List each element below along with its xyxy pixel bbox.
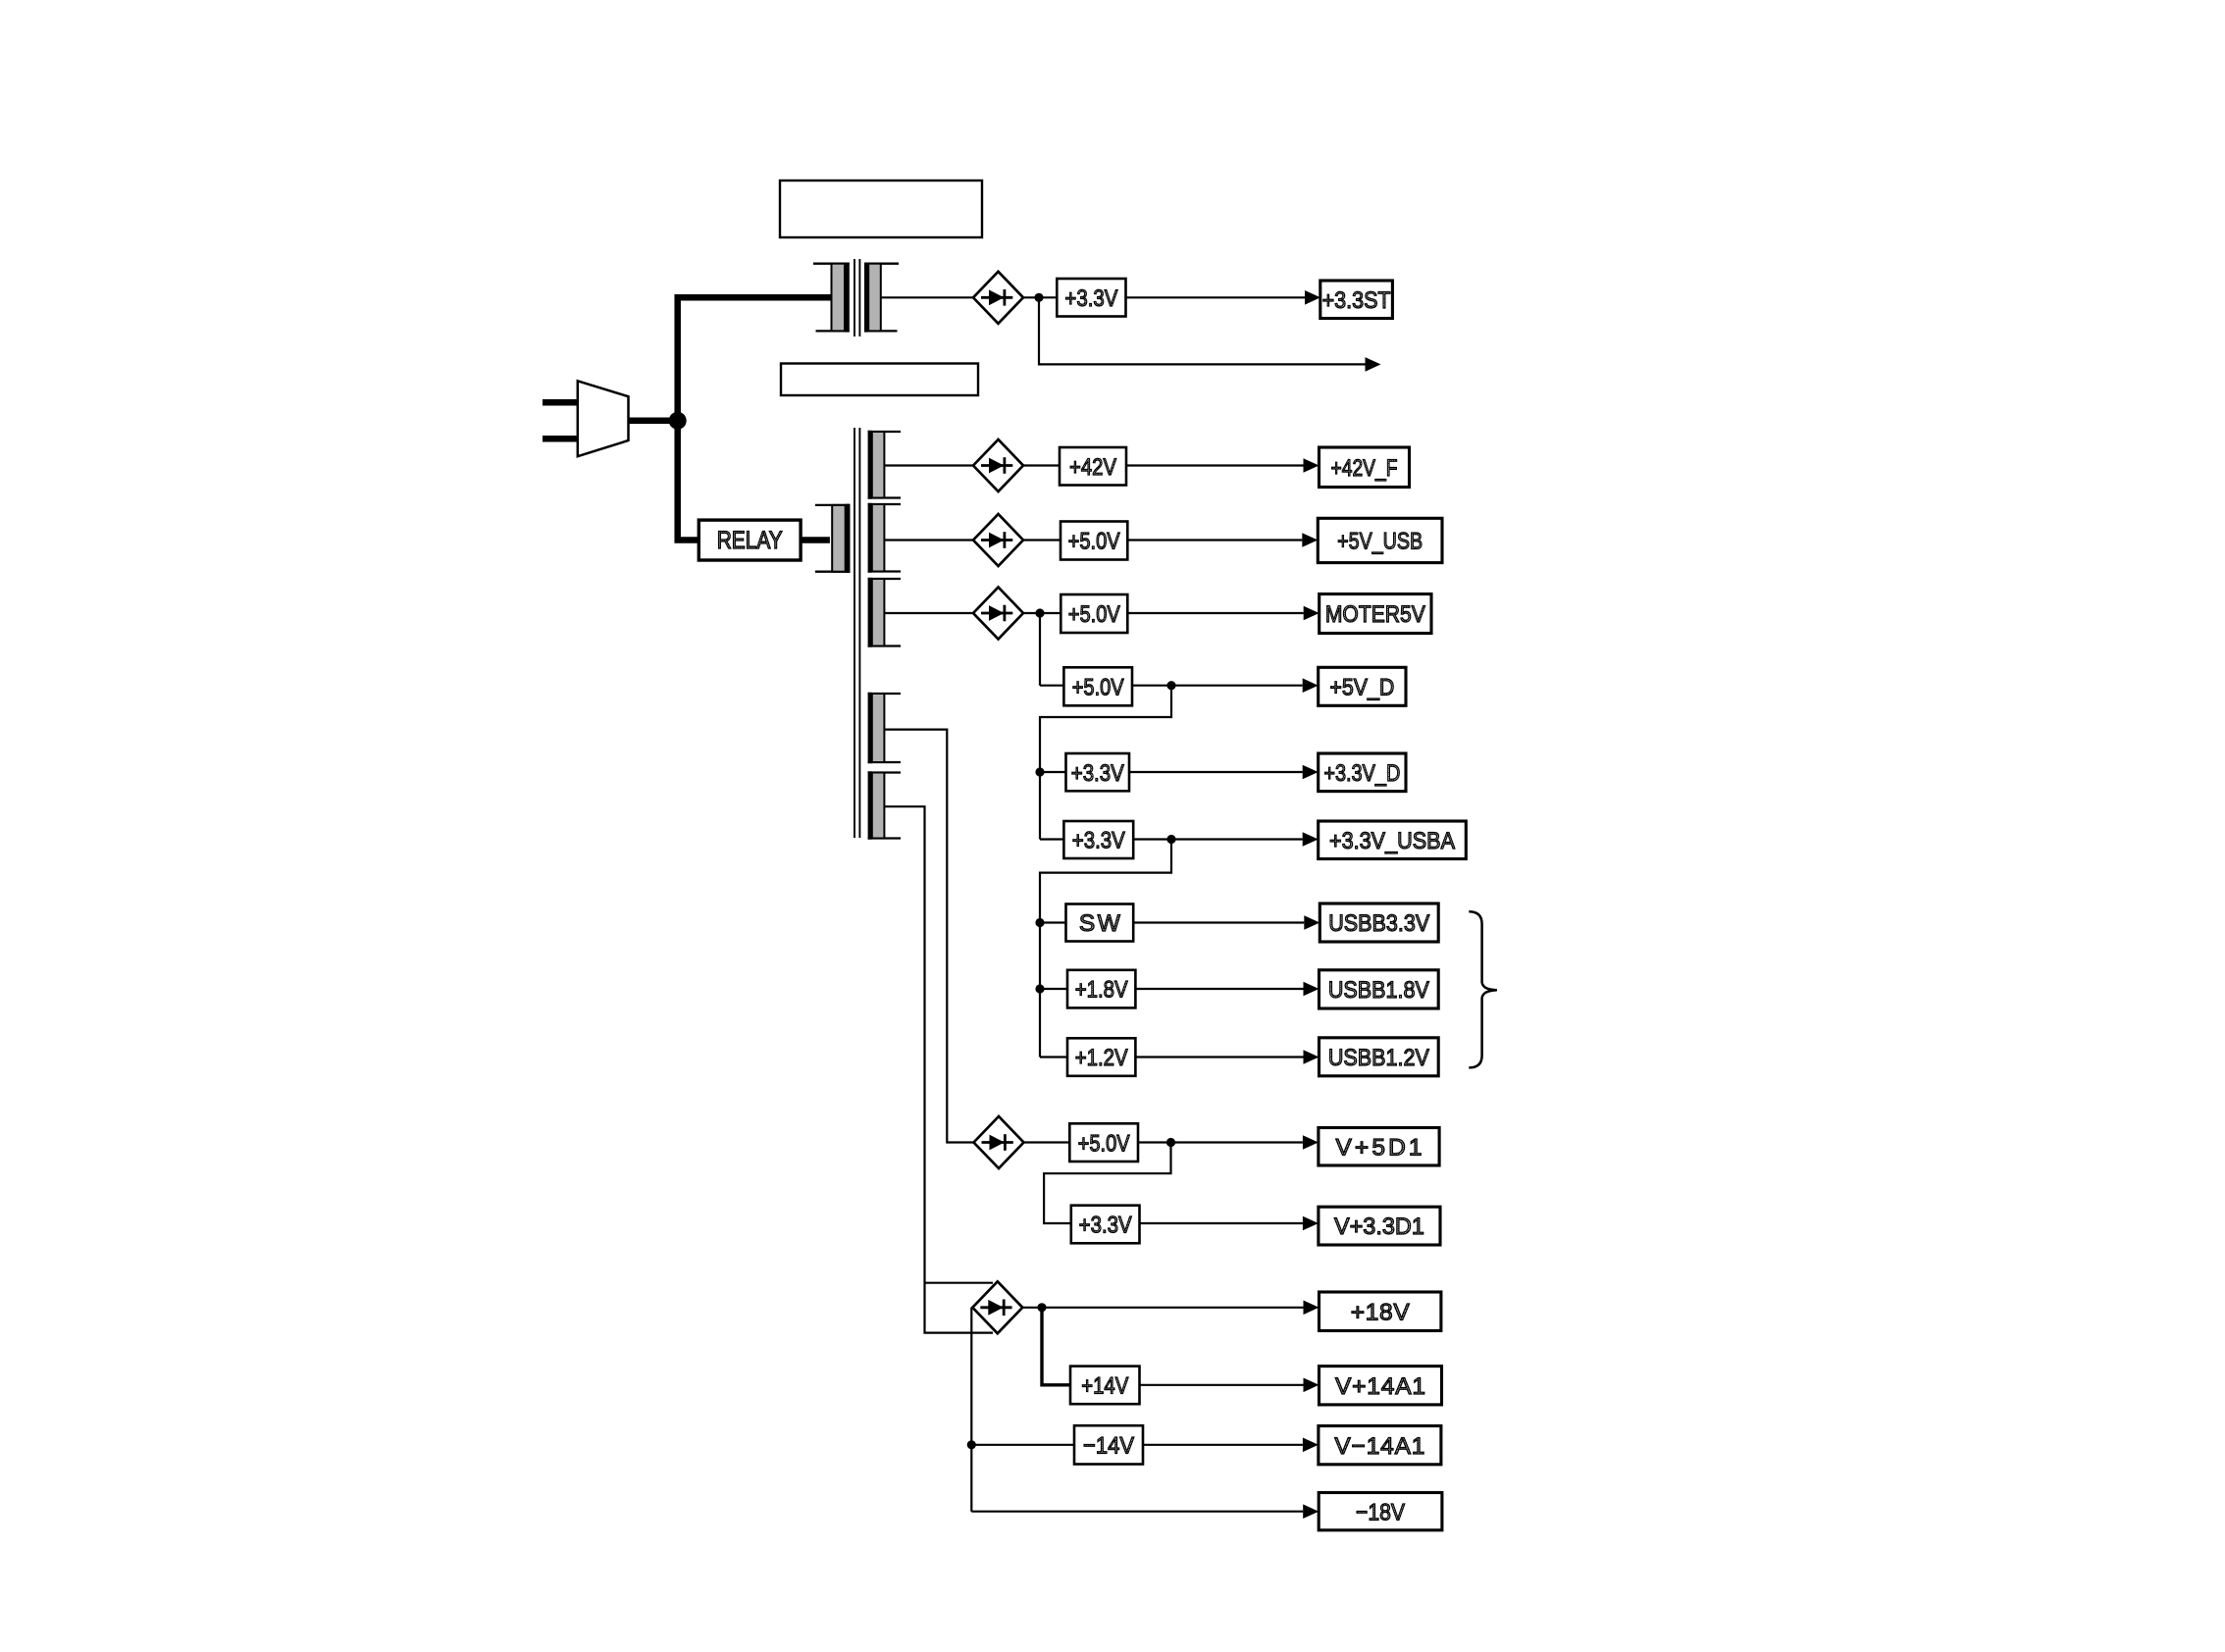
svg-text:−18V: −18V [1356, 1499, 1406, 1525]
output box USBB1.8V [1319, 970, 1439, 1008]
output box V+3.3D1 [1319, 1207, 1440, 1245]
node: AC junction [669, 412, 687, 430]
node: +18V junction [1037, 1303, 1046, 1312]
regulator box +5.0V (USB) [1061, 522, 1127, 560]
wire: S3 tap to rectifier [884, 612, 973, 614]
wire: bus to +3.3V (logic) [1040, 771, 1066, 773]
bridge rectifier (printer digital) [974, 1116, 1024, 1168]
regulator box +3.3V (standby) [1057, 279, 1125, 317]
empty label box (top) [780, 181, 982, 237]
wire: +5.0V to MOTER5V arrow [1127, 612, 1303, 614]
bridge rectifier (analog +/-18V) [972, 1281, 1022, 1333]
wire: bus to SW box [1040, 921, 1066, 923]
wire: bus to +1.2V box [1040, 1056, 1067, 1058]
wire: S2 tap to rectifier [884, 539, 973, 541]
AC plug prong (upper) [543, 399, 578, 406]
wire: rectifier to +18V junction [1022, 1307, 1042, 1309]
svg-text:MOTER5V: MOTER5V [1325, 601, 1426, 628]
output box -18V [1319, 1493, 1442, 1530]
wire: +5.0V to +5V_D arrow [1132, 685, 1303, 687]
output box +3.3ST [1320, 281, 1393, 319]
wire: +5.0V to +5V_USB arrow [1127, 539, 1302, 541]
wire: plug to AC junction (thick) [629, 418, 678, 425]
wire: rectifier to +5.0V box (motor) [1023, 612, 1061, 614]
wire: bus down from motor rectifier junction [1039, 613, 1041, 686]
wire: +3.3V to +3.3V_D arrow [1129, 771, 1303, 773]
node: +3.3V output junction [1034, 293, 1043, 302]
wire: SW to USBB3.3V arrow [1133, 921, 1304, 923]
wire: bus down to USB-A branch [1039, 772, 1041, 840]
svg-text:+3.3V: +3.3V [1079, 1213, 1133, 1239]
svg-text:V+3.3D1: V+3.3D1 [1334, 1213, 1424, 1240]
svg-text:+5.0V: +5.0V [1078, 1130, 1131, 1157]
wire: rectifier to +5.0V box (printer) [1024, 1141, 1070, 1143]
wire: bus zigzag from +3.3V_USBA junction down [1040, 840, 1171, 923]
regulator box +3.3V (logic) [1066, 753, 1130, 791]
switch box SW [1066, 904, 1134, 942]
bridge rectifier (+42V) [973, 439, 1023, 491]
output box +18V [1319, 1292, 1441, 1331]
T2 secondary winding S1 (+42V) [868, 431, 901, 499]
wire: standby feedback line with arrow [1039, 297, 1366, 364]
wire: RELAY to transformer T2 primary (thick) [801, 537, 830, 543]
wire: bus to +3.3V (USB-A) [1040, 838, 1063, 840]
bridge rectifier (standby +3.3V) [973, 272, 1023, 324]
wire: bus down to +1.8V branch [1039, 923, 1041, 990]
empty label box (below transformer T1) [781, 364, 978, 396]
svg-text:V+14A1: V+14A1 [1335, 1373, 1425, 1400]
regulator box +1.8V [1067, 970, 1135, 1008]
output box USBB1.2V [1319, 1038, 1439, 1076]
output box +5V_D [1319, 667, 1406, 705]
output box USBB3.3V [1319, 903, 1438, 942]
node: -14V branch junction [967, 1440, 976, 1449]
svg-text:+14V: +14V [1081, 1373, 1129, 1400]
node: SW branch junction [1035, 918, 1044, 927]
bridge rectifier (motor 5V) [973, 588, 1023, 640]
wire: analog rectifier upper AC input [925, 1282, 994, 1284]
regulator box +42V [1060, 447, 1126, 486]
svg-text:+1.8V: +1.8V [1075, 977, 1129, 1004]
svg-text:+3.3V: +3.3V [1064, 285, 1118, 312]
node: +5V_D junction [1166, 681, 1175, 690]
transformer T1 core [854, 259, 859, 336]
svg-text:+18V: +18V [1351, 1299, 1411, 1325]
regulator box +3.3V (printer) [1071, 1206, 1140, 1244]
svg-text:+42V_F: +42V_F [1331, 455, 1398, 482]
relay box RELAY [699, 520, 801, 560]
transformer T1 primary winding [813, 263, 850, 333]
wire: +18V junction down to +14V [1042, 1308, 1070, 1385]
wire: +3.3V to +3.3ST arrow [1126, 296, 1306, 298]
regulator box -14V [1074, 1425, 1143, 1464]
svg-text:+5V_D: +5V_D [1329, 674, 1394, 700]
svg-text:+42V: +42V [1069, 454, 1117, 481]
svg-text:+5.0V: +5.0V [1068, 529, 1121, 555]
regulator box +5.0V (logic) [1063, 667, 1132, 705]
wire: junction to -14V box [971, 1444, 1074, 1446]
svg-text:+5V_USB: +5V_USB [1337, 529, 1423, 555]
transformer T2 primary winding [815, 504, 851, 573]
AC plug body [578, 381, 629, 456]
wire: bus to +1.8V box [1040, 988, 1067, 990]
wire: bus to +5.0V (digital logic) [1040, 685, 1063, 687]
wire: rectifier to +5.0V box [1023, 539, 1061, 541]
svg-text:+1.2V: +1.2V [1075, 1045, 1129, 1071]
regulator box +3.3V (USB-A) [1063, 821, 1133, 858]
svg-text:+3.3V: +3.3V [1072, 828, 1126, 854]
wire: bus down to +1.2V branch [1039, 989, 1041, 1058]
node: +3.3V_USBA junction [1166, 835, 1175, 844]
T2 secondary winding S5 (analog) [868, 771, 901, 839]
output box MOTER5V [1319, 594, 1431, 634]
wire: zigzag from V+5D1 junction down to +3.3V [1044, 1143, 1170, 1224]
wire: S4 tap down to digital rectifier [884, 730, 973, 1143]
svg-text:+5.0V: +5.0V [1072, 674, 1125, 700]
svg-text:+5.0V: +5.0V [1068, 601, 1121, 628]
svg-text:+3.3V_USBA: +3.3V_USBA [1329, 828, 1456, 854]
output box V+5D1 [1319, 1128, 1439, 1166]
wire: analog rectifier minus output down [970, 1308, 972, 1512]
brace grouping USBB outputs [1469, 911, 1497, 1067]
regulator box +14V [1070, 1367, 1140, 1405]
regulator box +5.0V (printer) [1069, 1123, 1138, 1162]
wire: +3.3V to +3.3V_USBA arrow [1133, 838, 1303, 840]
T2 secondary winding S2 (+5V USB) [868, 503, 901, 573]
svg-text:V−14A1: V−14A1 [1334, 1433, 1424, 1460]
node: V+5D1 junction [1166, 1138, 1175, 1147]
bridge rectifier (+5V USB) [973, 514, 1023, 566]
node: +1.8V branch junction [1035, 984, 1044, 993]
wire: rectifier to +42V box [1023, 464, 1060, 466]
T2 secondary winding S4 (digital) [868, 693, 901, 763]
svg-text:RELAY: RELAY [717, 527, 783, 554]
wire: +3.3V to V+3.3D1 arrow [1140, 1222, 1303, 1224]
node: +3.3V_D branch junction [1035, 767, 1044, 776]
wire: +1.2V to USBB1.2V arrow [1135, 1056, 1303, 1058]
svg-text:+3.3V: +3.3V [1071, 760, 1125, 787]
AC plug prong (lower) [543, 436, 578, 442]
svg-text:V+5D1: V+5D1 [1336, 1134, 1423, 1161]
wire: +1.8V to USBB1.8V arrow [1135, 988, 1303, 990]
svg-text:USBB1.8V: USBB1.8V [1328, 977, 1430, 1004]
output box V+14A1 [1319, 1367, 1442, 1405]
regulator box +5.0V (motor) [1061, 594, 1127, 633]
svg-text:USBB3.3V: USBB3.3V [1328, 910, 1430, 937]
transformer T1 secondary winding [864, 263, 899, 333]
wire: +5.0V to V+5D1 arrow [1138, 1141, 1303, 1143]
output box +42V_F [1319, 447, 1410, 488]
svg-text:USBB1.2V: USBB1.2V [1328, 1045, 1430, 1071]
output box V-14A1 [1319, 1426, 1441, 1465]
wire: +42V to +42V_F arrow [1126, 464, 1304, 466]
svg-text:+3.3ST: +3.3ST [1322, 287, 1391, 314]
wire: T1 secondary to rectifier [881, 296, 973, 298]
wire: +18V junction to arrow [1042, 1307, 1304, 1309]
svg-text:+3.3V_D: +3.3V_D [1323, 760, 1400, 787]
node: motor rectifier junction [1035, 608, 1044, 617]
svg-text:SW: SW [1079, 910, 1121, 937]
wire: S5 tap down to analog rectifier [884, 806, 993, 1332]
wire: +14V to V+14A1 arrow [1140, 1384, 1304, 1386]
wire: rectifier to +3.3V regulator [1023, 296, 1057, 298]
svg-text:−14V: −14V [1083, 1432, 1135, 1459]
T2 secondary winding S3 (motor 5V) [868, 578, 901, 647]
output box +3.3V_USBA [1319, 821, 1467, 859]
wire: bus zigzag from +5V_D junction down [1040, 686, 1171, 772]
output box +5V_USB [1318, 518, 1442, 562]
wire: -14V to V-14A1 arrow [1143, 1444, 1303, 1446]
output box +3.3V_D [1319, 753, 1406, 792]
regulator box +1.2V [1067, 1038, 1135, 1076]
transformer T2 core [854, 428, 859, 838]
wire: minus rail to -18V arrow [971, 1511, 1303, 1513]
wire: AC trunk to transformer T1 primary and RELAY (thick) [678, 297, 833, 540]
wire: S1 tap to rectifier [884, 464, 973, 466]
